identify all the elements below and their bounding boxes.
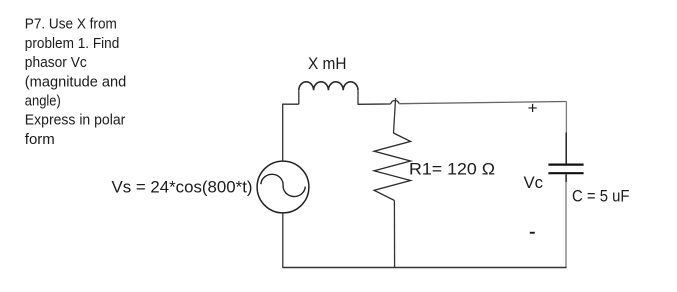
wire: capacitor top lead — [565, 133, 567, 164]
svg-text:problem 1. Find: problem 1. Find — [25, 35, 120, 52]
voltage source sine wave — [261, 174, 305, 196]
svg-text:Vc: Vc — [524, 173, 544, 192]
problem statement text — [25, 16, 127, 148]
svg-text:R1= 120 Ω: R1= 120 Ω — [409, 160, 495, 179]
svg-text:(magnitude and: (magnitude and — [25, 73, 127, 90]
resistor R1 top lead (from node A) — [394, 98, 396, 133]
minus polarity mark — [530, 232, 535, 234]
voltage source Vs circle — [257, 161, 309, 213]
wire: inductor left step — [298, 90, 300, 104]
wire: capacitor bottom lead — [565, 174, 567, 182]
svg-text:Vs = 24*cos(800*t): Vs = 24*cos(800*t) — [112, 178, 253, 197]
capacitor C bottom plate — [548, 172, 583, 174]
svg-text:phasor Vc: phasor Vc — [25, 54, 87, 71]
svg-text:P7. Use X from: P7. Use X from — [25, 16, 117, 33]
wire: bottom horizontal — [283, 267, 567, 269]
svg-text:X mH: X mH — [308, 54, 347, 73]
wire: source bottom lead — [282, 213, 284, 268]
resistor R1 bottom lead — [393, 200, 395, 268]
wire: right vertical upper (grey) — [565, 102, 567, 133]
svg-text:angle): angle) — [25, 93, 61, 110]
wire: inductor right step — [357, 90, 359, 104]
svg-text:form: form — [25, 131, 55, 148]
inductor L (4 arcs) — [299, 82, 358, 91]
wire: top left horizontal to inductor — [282, 103, 299, 105]
svg-text:Express in polar: Express in polar — [25, 112, 126, 129]
resistor R1 zigzag — [374, 133, 411, 200]
capacitor C top plate — [548, 164, 583, 166]
svg-text:C = 5 uF: C = 5 uF — [572, 188, 630, 206]
wire: top right horizontal to capacitor corner — [399, 102, 566, 104]
wire: top middle horizontal to junction — [358, 103, 391, 105]
junction hop over node A — [391, 100, 400, 104]
wire: right vertical lower (grey) — [565, 182, 567, 268]
wire: source top lead — [282, 104, 284, 161]
